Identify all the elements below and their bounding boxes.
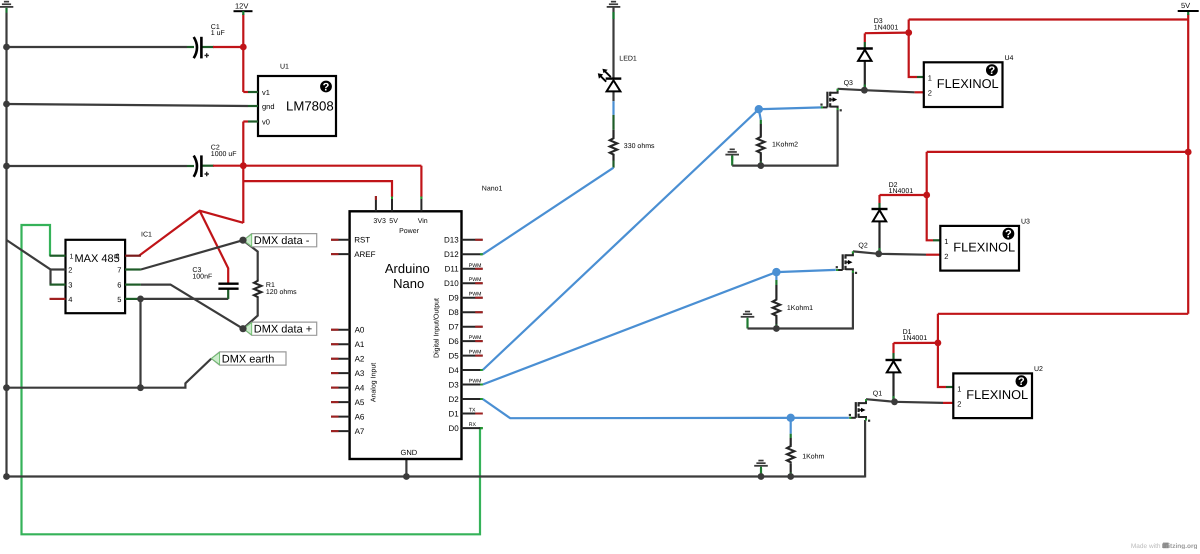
svg-text:Vin: Vin: [418, 217, 428, 225]
svg-text:7: 7: [117, 266, 121, 275]
svg-text:LED1: LED1: [619, 56, 637, 63]
svg-text:5: 5: [117, 295, 121, 304]
svg-text:Nano: Nano: [393, 276, 424, 291]
svg-text:Q2: Q2: [858, 242, 867, 249]
svg-text:A6: A6: [355, 412, 365, 421]
svg-text:D0: D0: [448, 424, 459, 433]
svg-text:Arduino: Arduino: [385, 261, 430, 276]
svg-text:D5: D5: [448, 351, 459, 360]
svg-text:Power: Power: [399, 228, 420, 235]
svg-text:4: 4: [68, 295, 72, 304]
svg-text:D7: D7: [448, 323, 459, 332]
svg-text:DMX data +: DMX data +: [254, 324, 312, 336]
svg-text:D6: D6: [448, 337, 459, 346]
svg-text:LM7808: LM7808: [286, 99, 334, 114]
svg-text:D3: D3: [448, 380, 459, 389]
svg-text:Q3: Q3: [844, 80, 853, 87]
svg-text:DMX data -: DMX data -: [254, 235, 310, 247]
svg-text:2: 2: [957, 400, 961, 409]
svg-text:1N4001: 1N4001: [874, 24, 899, 31]
svg-text:Fritzing.org: Fritzing.org: [1162, 543, 1198, 549]
svg-text:3V3: 3V3: [373, 218, 386, 225]
svg-text:Analog Input: Analog Input: [370, 363, 378, 402]
svg-text:PWM: PWM: [469, 263, 482, 269]
svg-text:Nano1: Nano1: [482, 186, 503, 193]
svg-text:1000 uF: 1000 uF: [211, 151, 237, 158]
svg-text:RX: RX: [469, 422, 477, 428]
svg-text:1: 1: [928, 73, 932, 82]
svg-text:D11: D11: [445, 265, 460, 274]
svg-text:D13: D13: [444, 236, 459, 245]
svg-text:1: 1: [944, 237, 948, 246]
svg-text:A3: A3: [355, 369, 365, 378]
svg-text:100nF: 100nF: [192, 273, 212, 280]
svg-text:PWM: PWM: [469, 292, 482, 298]
svg-text:Made with: Made with: [1131, 543, 1161, 549]
svg-text:U1: U1: [280, 64, 289, 71]
svg-text:6: 6: [117, 281, 121, 290]
svg-text:U2: U2: [1034, 366, 1043, 373]
svg-text:IC1: IC1: [141, 232, 152, 239]
svg-text:Q1: Q1: [873, 391, 882, 398]
svg-text:1: 1: [70, 254, 74, 261]
svg-text:1Kohm2: 1Kohm2: [772, 141, 798, 149]
svg-text:1: 1: [957, 384, 961, 393]
svg-text:1N4001: 1N4001: [889, 188, 914, 195]
svg-text:GND: GND: [401, 448, 418, 457]
svg-text:A7: A7: [355, 427, 365, 436]
svg-text:A4: A4: [355, 383, 365, 392]
svg-text:U4: U4: [1005, 55, 1014, 62]
svg-text:A0: A0: [355, 326, 365, 335]
svg-text:PWM: PWM: [469, 335, 482, 341]
svg-text:PWM: PWM: [469, 350, 482, 356]
svg-text:PWM: PWM: [469, 277, 482, 283]
svg-text:v1: v1: [262, 88, 270, 97]
svg-text:3: 3: [68, 281, 72, 290]
svg-text:U3: U3: [1021, 219, 1030, 226]
svg-text:8: 8: [116, 253, 120, 260]
svg-text:1N4001: 1N4001: [903, 335, 928, 342]
svg-text:1 uF: 1 uF: [211, 30, 225, 37]
svg-text:5V: 5V: [389, 218, 398, 225]
svg-text:A1: A1: [355, 340, 365, 349]
svg-text:2: 2: [944, 252, 948, 261]
svg-text:1Kohm: 1Kohm: [802, 453, 824, 461]
svg-text:RST: RST: [354, 236, 370, 245]
svg-text:D4: D4: [448, 366, 459, 375]
svg-text:D1: D1: [448, 409, 459, 418]
svg-text:12V: 12V: [235, 2, 248, 11]
svg-text:PWM: PWM: [469, 379, 482, 385]
svg-text:DMX earth: DMX earth: [222, 354, 275, 366]
svg-text:TX: TX: [469, 408, 476, 414]
svg-text:A2: A2: [355, 355, 365, 364]
svg-text:330 ohms: 330 ohms: [624, 142, 655, 150]
svg-text:Digital Input/Output: Digital Input/Output: [433, 298, 441, 358]
svg-text:D9: D9: [448, 294, 459, 303]
svg-text:1Kohm1: 1Kohm1: [787, 304, 813, 312]
svg-text:D2: D2: [448, 395, 459, 404]
svg-text:A5: A5: [355, 398, 365, 407]
svg-text:2: 2: [68, 266, 72, 275]
svg-text:v0: v0: [262, 118, 270, 127]
svg-text:5V: 5V: [1181, 1, 1190, 10]
svg-text:D8: D8: [448, 308, 459, 317]
svg-text:D10: D10: [444, 279, 459, 288]
svg-text:120 ohms: 120 ohms: [266, 288, 297, 296]
svg-text:MAX 485: MAX 485: [75, 253, 120, 265]
svg-text:2: 2: [928, 89, 932, 98]
svg-text:D12: D12: [444, 250, 459, 259]
svg-text:AREF: AREF: [354, 250, 375, 259]
svg-text:gnd: gnd: [262, 102, 275, 111]
